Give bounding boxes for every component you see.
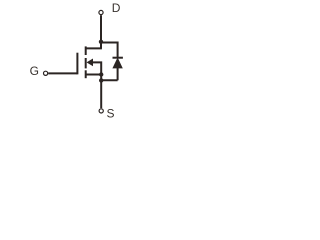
diode D1 xyxy=(112,57,122,68)
transistor Q1 body arrow xyxy=(87,59,94,67)
transistor Q1 channel source segment xyxy=(85,70,87,78)
transistor Q1 gate plate xyxy=(76,53,78,75)
wire gate lead xyxy=(48,72,77,74)
wire source to diode branch xyxy=(101,79,117,81)
junction drain node xyxy=(99,40,103,44)
wire body arrow to source xyxy=(92,62,101,75)
svg-text:G: G xyxy=(30,64,39,78)
wire drain vertical xyxy=(100,15,102,48)
transistor Q1 channel drain segment xyxy=(85,46,87,55)
transistor Q1 channel body segment xyxy=(85,58,87,68)
wire drain tap xyxy=(86,47,102,49)
wire source tap xyxy=(86,74,102,76)
diode D1 cathode bar xyxy=(113,57,123,59)
svg-text:S: S xyxy=(107,107,115,121)
junction diode anode node xyxy=(99,78,103,82)
wire drain to diode branch xyxy=(101,43,118,58)
svg-text:D: D xyxy=(112,1,121,15)
wire diode anode lead xyxy=(117,68,119,81)
junction source node xyxy=(99,72,103,76)
terminal S xyxy=(99,109,103,113)
terminal D xyxy=(99,10,103,14)
terminal G xyxy=(44,71,48,75)
wire source vertical xyxy=(100,75,102,109)
